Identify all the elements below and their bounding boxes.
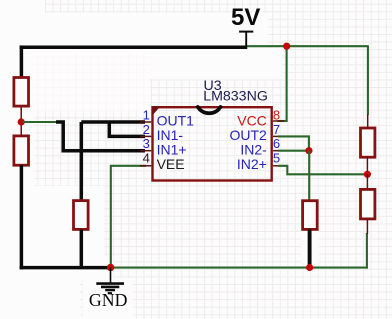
pin lead 1 bbox=[140, 121, 151, 123]
pin lead 7 bbox=[273, 135, 284, 137]
wire: green vertical down to R4 bbox=[308, 151, 310, 200]
pin lead 6 bbox=[273, 150, 284, 152]
pin lead 5 bbox=[273, 165, 284, 167]
svg-text:IN2+: IN2+ bbox=[237, 156, 267, 172]
ground symbol bbox=[96, 268, 124, 294]
svg-text:1: 1 bbox=[143, 107, 150, 122]
junction node R4/GND bbox=[306, 264, 313, 271]
wire: GND net green vertical right column bbox=[366, 233, 368, 269]
svg-text:4: 4 bbox=[143, 150, 150, 165]
svg-text:8: 8 bbox=[273, 107, 280, 122]
svg-text:5: 5 bbox=[273, 150, 280, 165]
IC pin 1 corner marker bbox=[153, 107, 160, 115]
pin lead 4 bbox=[140, 165, 151, 167]
resistor R5 (right top) bbox=[361, 115, 375, 175]
wire: 5V net green horizontal to right column bbox=[246, 45, 368, 47]
resistor R3 (middle left) bbox=[74, 201, 89, 230]
op-amp U3 LM833NG body bbox=[153, 107, 272, 180]
svg-text:VEE: VEE bbox=[157, 156, 185, 172]
svg-text:GND: GND bbox=[89, 290, 128, 310]
wire: 5V net thick black horizontal top bbox=[20, 45, 248, 49]
wire: OUT2 green pin 7 bbox=[278, 136, 309, 150]
wire: IN2+ green pin 5 path bbox=[278, 166, 367, 175]
wire: OUT1 net black horizontal pin 1 bbox=[81, 120, 145, 124]
svg-text:6: 6 bbox=[273, 136, 280, 151]
IC notch arc bbox=[198, 107, 221, 113]
svg-text:2: 2 bbox=[143, 122, 150, 137]
halo around R4 bottom wire bbox=[301, 231, 319, 263]
wire: OUT1 net black vertical down to R3 bbox=[80, 122, 84, 200]
pin lead 3 bbox=[140, 150, 151, 152]
wire: IN2- green pin 6 bbox=[278, 150, 309, 152]
svg-text:7: 7 bbox=[273, 122, 280, 137]
resistor R1 (left top) bbox=[14, 78, 29, 123]
junction node OUT2/IN2- bbox=[305, 147, 312, 154]
wire: green divider tap to IN1+ branch bbox=[23, 121, 58, 123]
wire: VEE net green pin 4 bbox=[111, 166, 146, 268]
wire: OUT1 feedback branch to IN1- pin 2 bbox=[109, 122, 145, 136]
svg-text:3: 3 bbox=[143, 136, 150, 151]
wire: GND net black bottom horizontal bbox=[20, 266, 111, 270]
wire: black R3 bottom to GND wire bbox=[80, 230, 84, 268]
wire: 5V net thick black vertical left down to R1 bbox=[20, 45, 24, 77]
resistor R4 (middle right) bbox=[303, 201, 318, 230]
wire: 5V net green vertical right column down bbox=[367, 46, 369, 115]
power symbol 5V bbox=[239, 32, 253, 47]
resistor R6 (right bottom) bbox=[361, 174, 375, 234]
junction node GND bbox=[107, 264, 114, 271]
wire: green stub pin 8 bbox=[278, 120, 288, 122]
pin lead 8 bbox=[273, 120, 284, 122]
pin lead 2 bbox=[140, 135, 151, 137]
resistor R2 (left second) bbox=[14, 122, 29, 165]
wire: black R4 bottom to GND wire bbox=[308, 230, 312, 268]
wire: GND net green bottom horizontal bbox=[111, 267, 368, 269]
wire: GND net black vertical left bbox=[20, 165, 24, 269]
junction node right divider tap bbox=[364, 171, 371, 178]
wire: black IN1+ net step bbox=[56, 122, 145, 151]
wire: 5V net green vertical down to pin 8 VCC bbox=[286, 45, 288, 122]
svg-text:5V: 5V bbox=[231, 4, 260, 31]
erased-grid white zones bbox=[0, 0, 45, 13]
junction node divider tap bbox=[18, 118, 25, 125]
svg-text:LM833NG: LM833NG bbox=[203, 88, 268, 104]
junction node 5V split bbox=[283, 43, 290, 50]
